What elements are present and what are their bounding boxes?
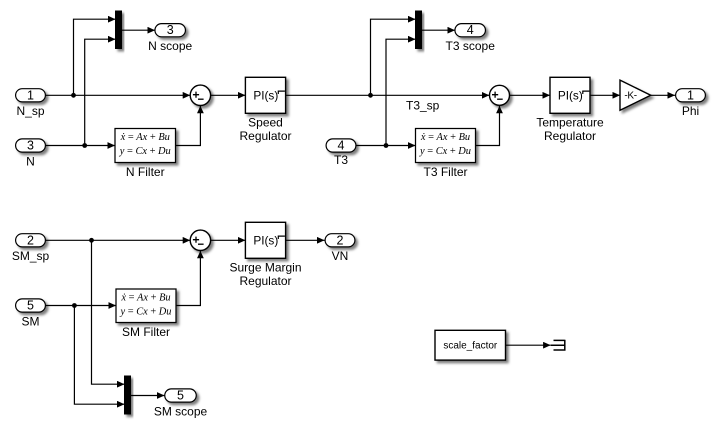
- svg-text:SM_sp: SM_sp: [12, 249, 50, 263]
- svg-text:PI(s): PI(s): [253, 234, 278, 248]
- svg-text:3: 3: [27, 139, 34, 153]
- svg-text:-K-: -K-: [624, 91, 636, 102]
- svg-text:y = Cx + Du: y = Cx + Du: [120, 306, 172, 317]
- svg-text:N_sp: N_sp: [16, 104, 44, 118]
- svg-text:N Filter: N Filter: [126, 165, 165, 179]
- svg-text:y = Cx + Du: y = Cx + Du: [419, 146, 471, 157]
- svg-text:Regulator: Regulator: [239, 274, 291, 288]
- svg-text:1: 1: [687, 88, 694, 102]
- svg-text:Phi: Phi: [682, 104, 699, 118]
- svg-text:ẋ = Ax + Bu: ẋ = Ax + Bu: [420, 132, 470, 143]
- svg-text:scale_factor: scale_factor: [443, 340, 498, 351]
- svg-text:Speed: Speed: [248, 116, 283, 130]
- svg-text:2: 2: [337, 233, 344, 247]
- svg-text:2: 2: [27, 233, 34, 247]
- svg-text:Regulator: Regulator: [239, 129, 291, 143]
- svg-text:SM: SM: [22, 314, 40, 328]
- svg-text:Surge Margin: Surge Margin: [229, 261, 301, 275]
- svg-text:ẋ = Ax + Bu: ẋ = Ax + Bu: [120, 132, 170, 143]
- svg-text:Regulator: Regulator: [544, 129, 596, 143]
- svg-text:3: 3: [167, 23, 174, 37]
- svg-text:T3_sp: T3_sp: [406, 99, 440, 113]
- svg-text:N scope: N scope: [148, 39, 192, 53]
- svg-text:SM Filter: SM Filter: [122, 325, 170, 339]
- svg-text:ẋ = Ax + Bu: ẋ = Ax + Bu: [120, 293, 170, 304]
- svg-text:SM scope: SM scope: [154, 404, 208, 418]
- svg-text:Temperature: Temperature: [536, 116, 604, 130]
- svg-text:PI(s): PI(s): [253, 89, 278, 103]
- svg-text:T3 Filter: T3 Filter: [423, 165, 467, 179]
- svg-text:5: 5: [177, 389, 184, 403]
- svg-text:4: 4: [338, 139, 345, 153]
- svg-text:y = Cx + Du: y = Cx + Du: [119, 146, 171, 157]
- svg-text:T3 scope: T3 scope: [446, 39, 496, 53]
- svg-text:PI(s): PI(s): [558, 89, 583, 103]
- svg-text:N: N: [26, 154, 35, 168]
- svg-text:T3: T3: [334, 153, 348, 167]
- svg-text:4: 4: [467, 23, 474, 37]
- svg-text:5: 5: [27, 299, 34, 313]
- svg-text:1: 1: [27, 88, 34, 102]
- svg-text:VN: VN: [332, 249, 349, 263]
